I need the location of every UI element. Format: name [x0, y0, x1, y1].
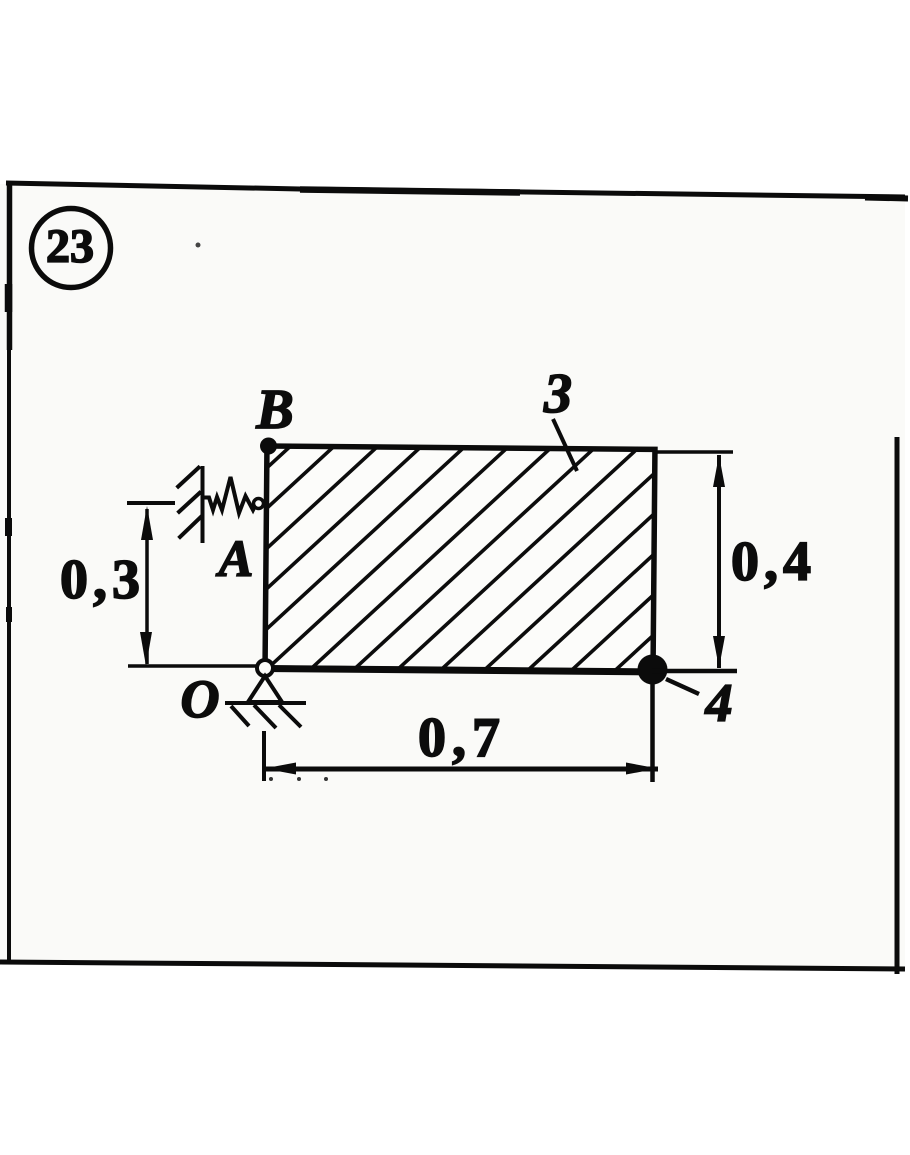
svg-text:4: 4 [705, 673, 733, 733]
svg-text:3: 3 [543, 363, 572, 425]
svg-text:23: 23 [46, 220, 94, 273]
svg-text:A: A [216, 531, 254, 588]
svg-text:O: O [181, 669, 220, 729]
svg-text:0,3: 0,3 [60, 549, 145, 611]
svg-text:0,7: 0,7 [418, 707, 506, 769]
svg-text:B: B [255, 379, 293, 441]
svg-text:0,4: 0,4 [731, 531, 816, 593]
